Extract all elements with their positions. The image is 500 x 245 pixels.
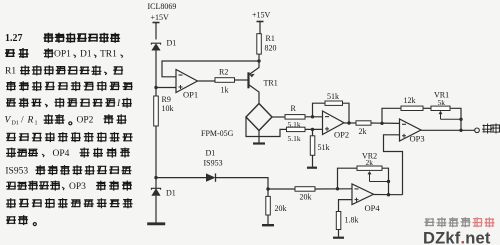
svg-text:OP2: OP2 xyxy=(77,116,94,126)
svg-text:OP1: OP1 xyxy=(54,49,71,59)
resistor 51k feedback OP2 xyxy=(313,103,326,117)
wire: OP4 output xyxy=(374,194,403,196)
zener diode D1 (ICL8069 reference) xyxy=(151,43,160,44)
wire: OP3 output to terminal xyxy=(421,129,475,131)
ground (20k shunt) xyxy=(262,224,274,226)
wire: 2k to OP3 - xyxy=(371,122,400,124)
svg-text:D1: D1 xyxy=(166,189,176,198)
svg-text:ICL8069: ICL8069 xyxy=(148,2,177,11)
svg-text:5.1k: 5.1k xyxy=(288,134,301,143)
svg-text:2k: 2k xyxy=(366,158,374,167)
svg-text:R1: R1 xyxy=(266,34,275,43)
wire: zener to ground xyxy=(155,196,157,223)
paragraph line 4 xyxy=(6,81,133,91)
VR1 wiper arrow xyxy=(440,113,442,120)
wire: bridge left to 5.1k xyxy=(246,117,287,137)
paragraph line 8 xyxy=(6,148,38,158)
wire: emitter sense feedback to OP1 - input xyxy=(162,61,259,77)
wire: IS953 to divider node xyxy=(216,178,269,189)
paragraph line 12 xyxy=(6,215,36,225)
wire: bridge bottom to ground xyxy=(258,131,260,143)
op-amp OP1 xyxy=(176,70,198,93)
svg-text:D1: D1 xyxy=(12,121,19,127)
svg-text:OP2: OP2 xyxy=(334,130,349,140)
wire: OP2 output to 2k xyxy=(344,122,356,124)
ground (1.8k) xyxy=(333,237,344,239)
resistor R9 10k xyxy=(155,88,157,97)
svg-text:1.8k: 1.8k xyxy=(345,216,359,225)
zener diode D1 (lower) xyxy=(155,178,157,188)
svg-text:20k: 20k xyxy=(300,193,312,202)
wire: node A to OP1 + input xyxy=(156,87,176,89)
svg-text:20k: 20k xyxy=(275,204,287,213)
wire: OP4 output to OP3 + input xyxy=(384,135,403,195)
svg-text:2k: 2k xyxy=(359,127,367,136)
svg-text:+15V: +15V xyxy=(151,13,170,22)
resistor 2k xyxy=(356,121,371,125)
resistor R1 820 xyxy=(257,34,262,54)
potentiometer VR2 2k feedback OP4 xyxy=(338,168,358,189)
svg-text:OP4: OP4 xyxy=(53,149,70,159)
svg-text:FPM-05G: FPM-05G xyxy=(201,129,234,138)
paragraph line 7 xyxy=(6,132,133,142)
transistor TR1 (PNP) xyxy=(247,72,249,88)
svg-text:R1: R1 xyxy=(5,67,16,77)
svg-text:D1: D1 xyxy=(167,39,177,48)
wire: +15V to R1 xyxy=(259,22,260,34)
resistor R 5.1k xyxy=(285,115,305,120)
ground (bridge) xyxy=(253,142,265,144)
node B junction xyxy=(154,176,157,179)
watermark Chinese community text xyxy=(425,217,471,227)
wire: R9 to node B xyxy=(155,126,157,178)
resistor R2 1k xyxy=(215,78,235,83)
wire: zener to node A xyxy=(155,51,157,88)
svg-text:TR1: TR1 xyxy=(264,78,278,87)
output terminal xyxy=(475,128,480,133)
svg-text:D1: D1 xyxy=(206,149,216,158)
svg-text:1.27: 1.27 xyxy=(5,33,23,44)
wire: R2 to TR1 base xyxy=(235,79,249,81)
wire: node B to IS953 xyxy=(156,177,206,179)
svg-text:5k: 5k xyxy=(438,98,446,107)
op-amp OP2 xyxy=(323,111,345,135)
svg-text:R9: R9 xyxy=(162,95,171,104)
wire: bridge right to R xyxy=(272,116,285,118)
svg-text:R: R xyxy=(27,116,34,126)
VR2 wiper arrow xyxy=(369,173,371,182)
node A junction xyxy=(154,86,157,89)
diode D1 IS953 xyxy=(206,173,216,181)
resistor 20k series xyxy=(268,188,295,190)
resistor 5.1k xyxy=(287,127,306,131)
ground (left rail) xyxy=(147,222,165,225)
svg-text:51k: 51k xyxy=(327,92,339,101)
svg-text:OP3: OP3 xyxy=(69,182,86,192)
svg-text:/: / xyxy=(21,116,24,126)
op-amp OP4 xyxy=(352,184,374,205)
svg-text:R: R xyxy=(291,104,297,113)
svg-text:51k: 51k xyxy=(318,143,330,152)
svg-text:D1: D1 xyxy=(80,49,92,59)
potentiometer VR1 5k xyxy=(431,106,450,110)
label: output (Chinese) xyxy=(482,124,500,134)
svg-text:10k: 10k xyxy=(162,104,174,113)
op-amp OP3 xyxy=(400,119,422,141)
resistor 20k shunt xyxy=(267,189,269,196)
svg-text:OP4: OP4 xyxy=(365,203,381,213)
paragraph line 5 xyxy=(6,98,115,108)
svg-text:+15V: +15V xyxy=(252,11,271,20)
paragraph line 2 xyxy=(5,48,29,58)
resistor 51k to ground xyxy=(312,129,314,135)
svg-text:1: 1 xyxy=(35,121,38,127)
emitter node junction xyxy=(257,59,260,62)
ground (51k) xyxy=(307,167,317,169)
paragraph line 10 xyxy=(6,181,60,191)
svg-text:TR1: TR1 xyxy=(100,49,117,59)
svg-text:820: 820 xyxy=(265,44,277,53)
svg-text:R2: R2 xyxy=(219,68,228,77)
wire: OP1 output to R2 xyxy=(198,80,216,81)
pressure sensor bridge FPM-05G xyxy=(246,104,272,131)
wire: 5.1k to OP2 + node xyxy=(305,128,323,130)
resistor 1.8k xyxy=(339,200,353,212)
wire: R1 to emitter node xyxy=(258,54,260,61)
svg-text:1k: 1k xyxy=(221,86,229,95)
wire: R to OP2 - node xyxy=(305,116,323,118)
paragraph line 11 xyxy=(6,198,133,208)
svg-text:OP3: OP3 xyxy=(410,134,425,144)
svg-text:12k: 12k xyxy=(404,96,416,105)
svg-text:OP1: OP1 xyxy=(183,90,198,100)
wire: +15V to zener D1 xyxy=(155,23,157,40)
svg-text:IS953: IS953 xyxy=(204,159,223,168)
svg-text:DZkf.net: DZkf.net xyxy=(423,230,491,245)
resistor 12k feedback OP3 xyxy=(382,108,401,123)
svg-text:IS953: IS953 xyxy=(5,166,28,176)
